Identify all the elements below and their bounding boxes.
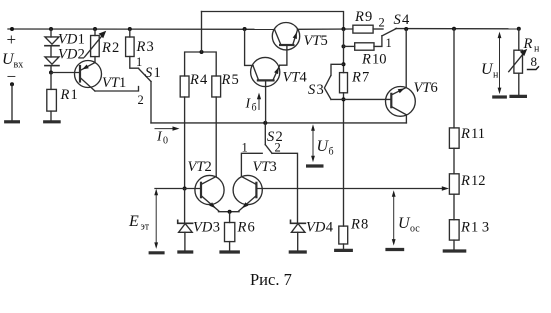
node minus terminal	[10, 82, 14, 86]
label S2 pin 1	[242, 141, 248, 155]
resistor R8	[339, 226, 348, 244]
label Ub	[317, 138, 334, 158]
svg-text:5: 5	[321, 33, 328, 49]
label R11	[460, 126, 485, 142]
ground under Rn	[511, 95, 525, 98]
label Rn	[523, 36, 541, 55]
wire long emitter line	[151, 122, 406, 124]
svg-text:S: S	[145, 65, 153, 81]
label minus	[7, 67, 17, 86]
svg-text:б: б	[329, 147, 334, 158]
svg-text:н: н	[534, 44, 540, 55]
svg-text:R: R	[237, 220, 247, 236]
node VT2 base junction	[183, 187, 187, 191]
svg-text:8: 8	[361, 217, 368, 233]
wire VD1 to VD2	[50, 46, 52, 57]
bar under Un	[494, 95, 506, 98]
svg-text:6: 6	[248, 220, 255, 236]
node VT4 collector rail junction	[243, 27, 247, 31]
svg-text:1: 1	[386, 36, 392, 50]
svg-text:VD: VD	[306, 220, 326, 236]
svg-text:R: R	[136, 39, 146, 55]
label R3	[136, 39, 154, 55]
label R7	[351, 70, 369, 86]
label R12	[460, 173, 486, 189]
measure arrow Uoc	[392, 190, 396, 245]
diode VD2	[45, 57, 59, 66]
measure arrow Un	[498, 32, 502, 95]
svg-text:2: 2	[379, 16, 385, 30]
transistor VT5	[272, 23, 299, 50]
svg-text:6: 6	[431, 80, 438, 96]
svg-text:I: I	[245, 97, 252, 112]
wire R9 right lead to open contact 2	[373, 28, 383, 30]
svg-text:2: 2	[78, 47, 85, 63]
node emitter junction	[228, 210, 232, 214]
wire VT1 collector to S1 pin 2	[95, 87, 139, 92]
caption	[250, 270, 292, 289]
ground under R8	[336, 249, 352, 252]
measure arrow Eet	[154, 189, 184, 249]
node VD1 top junction	[49, 27, 53, 31]
wire rail down to R11	[453, 29, 455, 128]
svg-text:R: R	[361, 52, 371, 68]
svg-text:VD: VD	[193, 220, 213, 236]
resistor R4	[180, 76, 189, 97]
wire rail to Rn	[518, 29, 520, 50]
label VD1	[58, 32, 85, 48]
wire VT3 base to R12 wiper	[256, 186, 449, 190]
svg-text:9: 9	[365, 9, 372, 25]
label VT1	[102, 75, 126, 91]
svg-text:1: 1	[136, 55, 142, 69]
svg-text:2: 2	[275, 141, 281, 155]
transistor VT2	[195, 175, 224, 211]
switch S4 arm	[382, 28, 397, 35]
svg-text:10: 10	[372, 52, 387, 68]
label S4	[394, 12, 411, 28]
label VT2	[188, 159, 212, 175]
label VT4	[283, 70, 308, 86]
wire main dropper vertical	[343, 29, 345, 226]
svg-text:1: 1	[154, 65, 161, 81]
svg-text:7: 7	[362, 70, 369, 86]
svg-text:S: S	[394, 12, 402, 28]
svg-text:R: R	[351, 70, 361, 86]
label VT5	[304, 33, 328, 49]
svg-text:0: 0	[163, 136, 168, 147]
wire R6 to ground	[229, 242, 231, 251]
wire VT2 base node down to VD3	[184, 189, 186, 223]
wire VD2 to base node	[50, 66, 52, 73]
label I0	[156, 130, 168, 147]
svg-text:VT: VT	[253, 159, 271, 175]
node S3 top junction	[342, 62, 346, 66]
svg-text:3: 3	[270, 159, 277, 175]
wire VT4 base down to long line	[265, 81, 267, 123]
resistor R1	[47, 89, 57, 111]
wire VD3 to ground	[184, 232, 186, 251]
wire R1 to ground	[50, 111, 52, 121]
label R9	[354, 9, 372, 25]
wire VD4 to ground	[297, 232, 299, 251]
label Eet	[128, 213, 150, 233]
label VT6	[414, 80, 438, 96]
label VD3	[193, 220, 220, 236]
bar under Uoc	[387, 248, 403, 251]
resistor R9	[353, 25, 373, 33]
node bus junction	[200, 50, 204, 54]
resistor Rn variable	[509, 49, 528, 73]
wire Rn to ground	[518, 73, 520, 95]
label S4 pin 1	[386, 36, 392, 50]
ground under R6	[221, 250, 238, 253]
svg-text:б: б	[252, 103, 257, 114]
svg-text:3: 3	[213, 220, 220, 236]
current arrow Ib	[257, 93, 261, 110]
svg-text:3: 3	[147, 39, 154, 55]
svg-text:2: 2	[138, 93, 144, 107]
transistor VT3	[233, 175, 262, 211]
wire R12 to R13	[453, 194, 455, 220]
wire VT3 collector to S2 pin 1	[241, 153, 262, 176]
label R2	[101, 40, 119, 56]
wire S1 down to I0 line	[150, 82, 152, 123]
wire R10 right lead to S4 pin 1	[374, 36, 382, 47]
ground under R1	[45, 120, 59, 123]
svg-text:VT: VT	[304, 33, 322, 49]
label S1 pin 2	[138, 93, 144, 107]
svg-text:R: R	[350, 217, 360, 233]
wire top rail mid (VT5 to R9)	[297, 28, 353, 30]
svg-text:эт: эт	[141, 222, 150, 233]
wire VT4 emitter to VT5 base	[280, 46, 287, 65]
measure arrow Ub	[311, 124, 315, 162]
svg-text:R: R	[101, 40, 111, 56]
ground under VD3	[179, 250, 192, 253]
svg-text:1: 1	[78, 32, 85, 48]
transistor VT6	[386, 87, 416, 117]
svg-text:4: 4	[402, 12, 410, 28]
ground under R13	[444, 249, 464, 252]
wire bus riser to upper feed line	[201, 12, 203, 53]
svg-text:4: 4	[300, 70, 308, 86]
wire VT6 collector up to rail	[405, 29, 407, 88]
label R8	[350, 217, 368, 233]
svg-text:1 3: 1 3	[471, 220, 489, 236]
svg-text:S: S	[308, 82, 316, 98]
label S3	[308, 82, 324, 98]
label Un	[481, 61, 499, 81]
ground under VD4	[290, 250, 305, 253]
ground under minus terminal	[6, 120, 19, 123]
wire base node down to R1	[50, 73, 52, 90]
switch S3	[324, 64, 343, 99]
resistor R11	[449, 128, 459, 148]
label S1 pin 1	[136, 55, 142, 69]
resistor R5	[212, 76, 221, 97]
label R10	[361, 52, 387, 68]
node VT6 collector rail junction	[404, 27, 408, 31]
svg-text:R: R	[189, 72, 199, 88]
node feed line rail junction	[342, 27, 346, 31]
label R6	[237, 220, 255, 236]
svg-text:R: R	[60, 87, 70, 103]
node S3 bottom junction	[342, 97, 346, 101]
svg-text:VT: VT	[102, 75, 120, 91]
svg-text:1: 1	[71, 87, 78, 103]
label +	[7, 30, 17, 49]
svg-text:1: 1	[119, 75, 126, 91]
label VD2	[58, 47, 85, 63]
wire top rail right (S4 pivot to load corner)	[396, 28, 519, 30]
resistor R6	[225, 223, 235, 242]
node S2 top junction	[263, 121, 267, 125]
svg-text:н: н	[493, 70, 499, 81]
wire R4 down to VT2 base node	[184, 97, 186, 189]
svg-text:I: I	[156, 130, 163, 145]
label 8 underlined	[528, 54, 539, 70]
wire R11 to R12	[453, 148, 455, 174]
node plus input terminal	[10, 27, 14, 31]
svg-text:R: R	[460, 173, 470, 189]
label Uвх	[2, 51, 23, 71]
node R10 left junction	[342, 44, 346, 48]
wire emitters joining bar	[219, 211, 240, 213]
current arrow I0	[155, 126, 180, 130]
svg-text:+: +	[7, 30, 17, 49]
wire R3 to S1 pin 1	[130, 57, 139, 69]
wire rail to R3	[129, 29, 131, 37]
svg-text:VD: VD	[58, 47, 78, 63]
wire S3 bottom to VT6 base	[331, 98, 391, 100]
switch S1 arm	[139, 69, 151, 82]
ground under Eet	[150, 251, 163, 254]
resistor R7	[340, 73, 348, 93]
svg-text:R: R	[523, 36, 533, 52]
wire minus terminal to ground	[11, 84, 13, 121]
label R1	[60, 87, 78, 103]
label R4	[189, 72, 208, 88]
node VT1 base junction	[49, 71, 53, 75]
bar under Ub	[308, 164, 322, 167]
svg-text:ос: ос	[410, 224, 420, 235]
resistor R2 variable	[85, 31, 107, 57]
wire VT6 emitter down to long line	[405, 115, 407, 123]
svg-text:4: 4	[200, 72, 208, 88]
svg-text:VD: VD	[58, 32, 78, 48]
wire R2 to VT1 emitter	[94, 57, 96, 63]
wire junction to R6	[229, 212, 231, 223]
wire rail to VD1	[50, 29, 52, 37]
svg-text:VT: VT	[283, 70, 301, 86]
svg-text:11: 11	[471, 126, 485, 142]
wire rail to R2	[94, 29, 96, 36]
svg-text:4: 4	[326, 220, 334, 236]
svg-text:12: 12	[471, 173, 486, 189]
node R3 top junction	[128, 27, 132, 31]
resistor R3	[126, 37, 135, 57]
label VT3	[253, 159, 277, 175]
label R13	[460, 220, 489, 236]
svg-text:Рис. 7: Рис. 7	[250, 270, 292, 289]
label VD4	[306, 220, 334, 236]
node load corner	[517, 27, 521, 31]
wire R5 down to VT2 collector	[215, 97, 217, 177]
wire base node to VT1	[51, 72, 80, 74]
zener VD4	[291, 220, 306, 232]
wire R4 R5 top bus	[185, 52, 217, 76]
svg-text:2: 2	[112, 40, 119, 56]
node feedback divider rail junction	[452, 27, 456, 31]
svg-text:R: R	[460, 220, 470, 236]
switch S2	[265, 123, 272, 153]
wire top rail left	[8, 28, 275, 30]
label Uoc	[398, 215, 420, 235]
label S2 pin 2	[275, 141, 281, 155]
svg-text:5: 5	[232, 72, 239, 88]
wire S2 pin 2 to VD4	[272, 153, 298, 223]
wire rail to VT4 collector	[245, 29, 253, 65]
resistor R12 potentiometer	[449, 174, 459, 194]
svg-text:8: 8	[531, 54, 538, 69]
svg-text:3: 3	[317, 82, 324, 98]
label Ib	[245, 97, 257, 114]
svg-text:R: R	[354, 9, 364, 25]
svg-text:1: 1	[242, 141, 248, 155]
label S4 pin 2	[379, 16, 385, 30]
wire R8 to ground	[343, 244, 345, 249]
transistor VT4	[251, 57, 280, 86]
label S1	[145, 65, 161, 81]
resistor R13	[449, 220, 459, 240]
svg-text:R: R	[221, 72, 231, 88]
svg-text:E: E	[128, 213, 139, 230]
wire R13 to ground	[453, 240, 455, 250]
wire upper feed line	[202, 12, 344, 30]
transistor VT1	[75, 61, 102, 92]
wire VT2 base	[185, 188, 201, 190]
wire R10 left lead	[344, 45, 355, 47]
zener VD3	[178, 220, 193, 232]
svg-text:VT: VT	[414, 80, 432, 96]
node R2 top junction	[93, 27, 97, 31]
svg-text:2: 2	[205, 159, 212, 175]
resistor R10	[355, 43, 374, 50]
svg-text:VT: VT	[188, 159, 206, 175]
svg-text:R: R	[460, 126, 470, 142]
label S2	[267, 129, 283, 145]
diode VD1	[45, 37, 59, 46]
label R5	[221, 72, 239, 88]
